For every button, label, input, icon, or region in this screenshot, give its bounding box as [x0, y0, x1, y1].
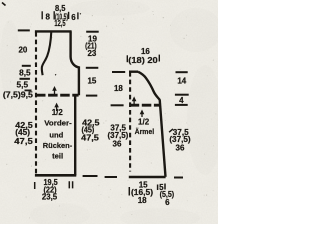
- svg-text:8,5: 8,5: [19, 68, 31, 77]
- left piece grain arrow above underarm line: [52, 86, 57, 94]
- svg-text:5,5: 5,5: [17, 80, 29, 89]
- svg-text:(45): (45): [15, 128, 30, 137]
- sleeve grain arrow below underarm line: [140, 110, 145, 118]
- sleeve cap curve: [138, 72, 160, 100]
- column2 tick y68: [86, 67, 99, 69]
- svg-text:47,5: 47,5: [81, 133, 99, 142]
- svg-text:6: 6: [71, 13, 76, 22]
- sleeve bottom edge: [129, 176, 166, 179]
- svg-text:14: 14: [177, 77, 186, 86]
- top measurement bar tick 4: [77, 12, 79, 19]
- sleeve underarm line (dashed): [130, 104, 160, 107]
- svg-text:(7,5)9,5: (7,5)9,5: [3, 91, 34, 100]
- left piece fold line (dashed): [35, 32, 37, 175]
- left piece armhole edge: [71, 31, 79, 95]
- left piece bottom edge: [35, 174, 76, 177]
- paper corner mark: [2, 3, 6, 6]
- column2 bottom tick y176: [83, 175, 98, 177]
- sleeve right slanted tick: [169, 129, 173, 132]
- svg-text:18: 18: [138, 196, 147, 205]
- svg-text:15: 15: [87, 77, 96, 86]
- middle column bottom tick y177: [105, 176, 117, 178]
- top measurement bar tick 1: [41, 11, 43, 19]
- svg-text:36: 36: [176, 144, 185, 153]
- middle column tick y72: [112, 71, 125, 73]
- sleeve side seam: [160, 100, 166, 177]
- sleeve right tick y105: [175, 104, 188, 106]
- left column tick y79: [20, 78, 30, 80]
- left piece top edge: [35, 30, 72, 32]
- svg-text:8: 8: [45, 13, 50, 22]
- left column tick y90: [25, 89, 32, 91]
- top measurement bar tick 2: [53, 11, 55, 19]
- sleeve grain arrow above underarm line: [132, 96, 137, 104]
- sleeve bottom tick right of 5: [164, 184, 166, 190]
- sleeve top edge: [129, 70, 138, 72]
- svg-text:(18) 20: (18) 20: [128, 56, 158, 65]
- sleeve top bar tick left: [126, 55, 128, 62]
- left piece side seam: [74, 96, 76, 175]
- left piece grain arrow below underarm line: [54, 103, 59, 111]
- column2 tick y95.6: [86, 95, 97, 97]
- left piece front neckline curve: [42, 32, 52, 76]
- svg-text:23: 23: [87, 49, 96, 58]
- svg-text:12,5: 12,5: [54, 19, 66, 28]
- svg-text:1/2: 1/2: [138, 117, 150, 126]
- sleeve right bottom tick: [174, 177, 183, 179]
- svg-text:18: 18: [114, 84, 123, 93]
- left column tick y66: [22, 65, 31, 67]
- svg-text:Vorder-: Vorder-: [44, 118, 72, 127]
- left column tick y30: [18, 29, 30, 31]
- svg-text:1/2: 1/2: [52, 108, 64, 117]
- sleeve right tick y72: [176, 71, 188, 73]
- svg-text:Rücken-: Rücken-: [43, 141, 73, 150]
- svg-text:23,5: 23,5: [42, 193, 58, 202]
- small dot after top bars: [79, 12, 82, 15]
- svg-text:6: 6: [165, 198, 170, 207]
- svg-text:36: 36: [113, 140, 122, 149]
- column2 tick y32: [86, 31, 99, 33]
- svg-text:teil: teil: [52, 152, 63, 161]
- sleeve fold line (dashed): [129, 72, 131, 172]
- top measurement bar tick 3: [68, 12, 70, 19]
- sleeve right tick y95: [175, 94, 189, 96]
- svg-text:und: und: [49, 130, 63, 139]
- svg-text:Ärmel: Ärmel: [135, 127, 155, 136]
- left piece bottom tick |: [34, 182, 36, 189]
- svg-text:20: 20: [18, 45, 27, 54]
- svg-text:4: 4: [179, 96, 184, 105]
- left piece underarm line (dashed): [36, 94, 79, 97]
- sleeve bottom tick left of 5: [157, 185, 159, 191]
- small dot inside left piece: [54, 73, 57, 76]
- left piece bottom double tick ||: [69, 181, 72, 188]
- svg-text:16: 16: [141, 47, 150, 56]
- svg-text:47,5: 47,5: [14, 137, 33, 146]
- sleeve top bar tick right: [158, 55, 160, 62]
- sleeve bottom tick |: [128, 187, 130, 196]
- middle column tick y105: [111, 104, 124, 106]
